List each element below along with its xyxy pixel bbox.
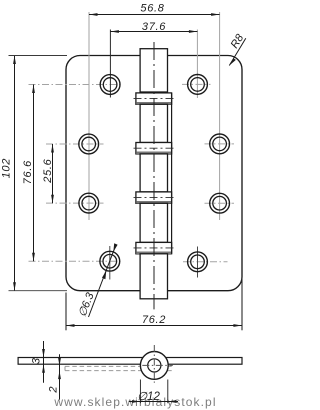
node centerline row MR2 hole [205, 202, 235, 204]
hole MR1 outer [210, 134, 230, 154]
hole MR2 outer [210, 193, 230, 213]
node centerline row BR hole [183, 261, 228, 263]
dimension 76.2 [66, 325, 242, 327]
dimension 3 [43, 341, 45, 383]
hole BL inner [103, 254, 117, 268]
knuckle K2 [140, 104, 167, 142]
bearing ring B4 [136, 242, 172, 253]
hole BR inner [191, 255, 205, 269]
svg-text:76.2: 76.2 [142, 314, 166, 326]
svg-text:56.8: 56.8 [140, 3, 164, 15]
svg-text:76.6: 76.6 [22, 160, 34, 184]
hole TR inner [191, 78, 205, 92]
side view hidden leaf dashed top [65, 365, 174, 367]
hole TR outer [188, 75, 208, 95]
hole TL outer [100, 75, 120, 95]
node centerline column BR hole [197, 247, 199, 278]
node centerline row ML1 hole [46, 143, 104, 145]
extension line 76.2 left [65, 293, 67, 331]
knuckle K3 [140, 154, 167, 192]
hole ML2 outer [79, 193, 99, 213]
hole TL inner [103, 78, 117, 92]
hole ML1 outer [79, 134, 99, 154]
node centerline column ML (x=89) [88, 12, 90, 220]
washer gray line B3 [136, 201, 171, 204]
ring centerline B2 [134, 147, 175, 149]
side view hidden leaf dashed left cap [64, 366, 66, 370]
hole ML2 inner [82, 196, 96, 210]
node centerline row BL hole [29, 260, 122, 262]
hole MR2 inner [213, 196, 227, 210]
bearing ring B1 [136, 93, 172, 104]
side view knuckle circle [140, 352, 168, 380]
knuckle K1 [140, 49, 167, 92]
dimension 25.6 [52, 144, 54, 203]
node centerline column MR (x=219.6) [219, 12, 221, 220]
svg-text:102: 102 [1, 158, 13, 178]
hole BR outer [188, 252, 208, 272]
hole BL outer [100, 251, 120, 271]
knuckle K5 [140, 254, 167, 299]
hinge leaf plate outline [66, 56, 242, 291]
svg-text:37.6: 37.6 [142, 21, 166, 33]
bearing ring B2 [136, 143, 172, 154]
dimension dia 6.3 leader [89, 246, 116, 317]
hole ML1 inner [82, 137, 96, 151]
svg-text:∅12: ∅12 [137, 391, 160, 403]
extension line 102 bottom [9, 290, 68, 292]
washer gray line B2 [136, 152, 171, 155]
side view pin circle [148, 359, 161, 372]
hole MR1 inner [213, 137, 227, 151]
washer gray line B4 [136, 251, 171, 254]
node centerline column TR (x=197.4) [196, 30, 198, 99]
node centerline row ML2 hole [46, 202, 104, 204]
node centerline row TL hole [29, 84, 122, 86]
side view solid leaf bar [18, 358, 242, 365]
svg-text:2: 2 [48, 387, 60, 394]
svg-text:25.6: 25.6 [42, 158, 54, 183]
ring centerline B1 [134, 98, 175, 100]
svg-text:3: 3 [31, 357, 43, 364]
sleeve step line right [171, 93, 173, 254]
dimension dia 12 [139, 380, 141, 404]
dimension 37.6 [110, 31, 197, 33]
extension line 102 top [9, 55, 68, 57]
dimension 102 [14, 56, 16, 291]
bearing ring B3 [136, 192, 172, 203]
dimension 2 [59, 354, 61, 399]
node centerline row TR hole [182, 83, 211, 85]
dimension R8 leader [229, 38, 246, 65]
extension line 76.2 right [241, 277, 243, 331]
node centerline column BL hole [109, 246, 111, 280]
dimension 76.6 [33, 85, 35, 262]
knuckle K4 [140, 203, 167, 242]
side view knuckle circle centerlines [153, 345, 155, 383]
side view hidden leaf dashed bottom [65, 370, 174, 372]
washer gray line B1 [136, 102, 171, 105]
node centerline row MR1 hole [205, 143, 235, 145]
node centerline column TL (x=110.4) [109, 30, 111, 98]
ring centerline B3 [134, 197, 175, 199]
pin centerline vertical [153, 42, 155, 309]
ring centerline B4 [134, 247, 175, 249]
dimension 56.8 [89, 14, 220, 16]
